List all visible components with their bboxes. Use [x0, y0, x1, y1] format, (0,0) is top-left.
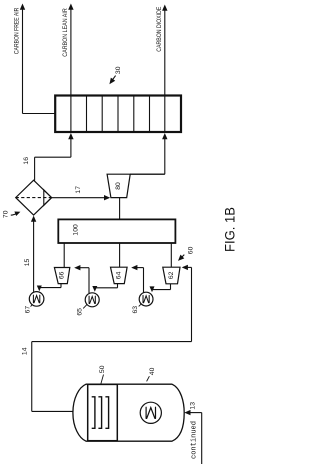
svg-text:17: 17	[75, 186, 82, 194]
svg-text:40: 40	[149, 367, 156, 375]
svg-text:50: 50	[99, 365, 106, 373]
svg-text:16: 16	[23, 157, 30, 165]
svg-text:100: 100	[73, 224, 80, 236]
svg-text:CARBON FREE AIR: CARBON FREE AIR	[15, 7, 21, 54]
svg-text:14: 14	[22, 347, 29, 355]
svg-text:67: 67	[25, 306, 32, 314]
svg-text:CARBON LEAN AIR: CARBON LEAN AIR	[63, 8, 69, 57]
svg-text:15: 15	[24, 259, 31, 267]
svg-text:FIG. 1B: FIG. 1B	[223, 207, 238, 252]
svg-text:66: 66	[59, 271, 66, 279]
svg-text:65: 65	[77, 308, 84, 316]
svg-text:80: 80	[115, 182, 122, 190]
svg-text:CARBON DIOXIDE: CARBON DIOXIDE	[157, 7, 163, 52]
svg-text:70: 70	[2, 210, 9, 218]
svg-text:13: 13	[189, 402, 196, 410]
svg-text:60: 60	[188, 246, 195, 254]
svg-text:64: 64	[115, 271, 122, 279]
svg-text:continued: continued	[190, 421, 198, 459]
svg-text:30: 30	[115, 66, 122, 74]
svg-text:62: 62	[168, 271, 175, 279]
svg-text:63: 63	[132, 306, 139, 314]
